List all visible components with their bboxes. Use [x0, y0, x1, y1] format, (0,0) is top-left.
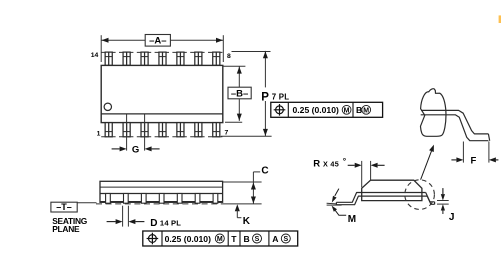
dimension A boxed label	[145, 35, 170, 47]
detail lead lower line	[421, 115, 489, 141]
dimension D arrows	[116, 219, 123, 224]
end view lead lower line	[336, 196, 427, 205]
feature control frame 2	[143, 231, 298, 246]
side view body	[100, 181, 223, 202]
svg-text:D: D	[150, 218, 157, 229]
seating plane extension right	[222, 203, 262, 205]
side view body bottom edge	[100, 201, 223, 203]
svg-text:PLANE: PLANE	[52, 224, 80, 234]
svg-text:R: R	[313, 159, 320, 170]
dimension B boxed label	[228, 87, 251, 99]
dimension C line with arrows	[252, 182, 254, 204]
svg-text:14 PL: 14 PL	[160, 218, 181, 227]
detail lead upper line	[421, 110, 488, 133]
svg-text:M: M	[348, 214, 356, 225]
dimension J arrows	[441, 194, 445, 200]
dimension A extension line left	[100, 35, 102, 62]
highlight fragment at right edge	[499, 15, 501, 23]
svg-text:G: G	[132, 145, 139, 156]
bottom row pins	[105, 123, 112, 137]
svg-text:1: 1	[97, 131, 101, 138]
end view lead upper line	[336, 193, 425, 203]
svg-text:T: T	[231, 234, 237, 244]
svg-text:K: K	[243, 216, 251, 227]
datum T connector line	[77, 202, 96, 204]
dimension K arrow and label	[235, 204, 240, 211]
detail leader arrow	[421, 150, 432, 179]
svg-text:–A–: –A–	[149, 36, 166, 47]
svg-text:8: 8	[227, 53, 231, 60]
dimension A extension line right	[222, 35, 224, 62]
dimension B line with arrows	[238, 66, 240, 121]
svg-text:C: C	[261, 165, 268, 176]
dimension P bottom extension line	[221, 135, 272, 137]
svg-text:M: M	[363, 107, 369, 114]
dimension C extension line top	[223, 181, 262, 183]
svg-text:7: 7	[225, 130, 229, 137]
bottom dashed lead-tip line	[101, 136, 223, 138]
right lead upper line	[426, 193, 435, 202]
dimension P top extension line	[232, 51, 271, 53]
side view lead shoulder line	[100, 193, 223, 195]
right lead lower line	[427, 196, 434, 204]
svg-text:14: 14	[91, 52, 99, 59]
svg-text:J: J	[449, 212, 455, 223]
dimension G extension lines	[126, 115, 128, 151]
detail view torn body outline	[421, 89, 446, 137]
dimension J extension lines	[437, 200, 449, 202]
body inner line	[101, 113, 223, 115]
svg-text:M: M	[217, 236, 223, 243]
svg-text:0.25 (0.010): 0.25 (0.010)	[165, 234, 211, 244]
svg-text:B: B	[244, 234, 250, 244]
svg-text:0.25 (0.010): 0.25 (0.010)	[293, 105, 339, 115]
top dashed lead-tip line	[101, 51, 223, 53]
svg-text:S: S	[283, 236, 288, 243]
detail callout dashed circle	[405, 180, 435, 210]
svg-text:B: B	[356, 105, 362, 115]
feature control frame 1	[271, 102, 383, 117]
dimension M lower leader and label	[332, 206, 337, 212]
svg-text:7 PL: 7 PL	[272, 93, 289, 102]
pin 1 index circle	[104, 103, 111, 110]
dimension F arrows	[456, 157, 463, 162]
svg-text:X 45: X 45	[323, 159, 339, 168]
side view leads	[106, 194, 111, 204]
detail foot end cap	[488, 134, 489, 141]
svg-text:–B–: –B–	[231, 88, 248, 99]
right foot tip cap	[434, 202, 436, 205]
dimension F extension lines	[462, 142, 464, 163]
svg-text:–T–: –T–	[56, 202, 72, 212]
end view body	[362, 180, 422, 200]
dimension G arrows	[120, 146, 127, 151]
svg-text:P: P	[261, 91, 269, 103]
top row pins	[105, 52, 112, 65]
package body top view	[101, 65, 223, 122]
side view parting line	[100, 186, 223, 188]
datum T box	[51, 202, 77, 212]
chamfer dimension extension lines	[361, 161, 363, 187]
svg-text:F: F	[471, 155, 477, 166]
chamfer dimension arrows	[355, 163, 362, 168]
svg-text:°: °	[343, 156, 347, 166]
dimension B extension lines	[223, 65, 246, 67]
dimension C leader and label	[252, 172, 254, 182]
svg-text:A: A	[272, 234, 278, 244]
seating plane dashed line	[96, 203, 222, 205]
dimension P line with arrows	[264, 51, 266, 88]
dimension M wedge lines	[327, 202, 337, 205]
left foot tip cap	[335, 202, 337, 204]
svg-text:S: S	[255, 236, 260, 243]
dimension M upper arrow	[335, 189, 339, 196]
dimension D extension lines	[122, 206, 124, 227]
dimension A line	[101, 39, 145, 41]
svg-text:M: M	[344, 107, 350, 114]
